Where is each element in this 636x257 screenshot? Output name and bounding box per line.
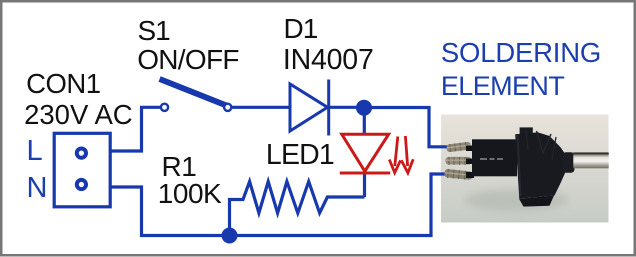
label 100K [158, 180, 221, 208]
wire: switch right terminal to diode anode [232, 106, 290, 109]
LED1 emission arrow 2 [401, 136, 413, 173]
junction A dot [356, 100, 372, 116]
wire: LED cathode down to resistor lead [363, 173, 366, 197]
soldering element: under-plug soft shadow [464, 189, 568, 211]
LED1 cathode bar [340, 172, 390, 175]
LED1 triangle [342, 134, 389, 171]
soldering element: rod top edge line [573, 152, 608, 154]
label R1 [162, 153, 197, 181]
soldering element: bell facet creases [537, 131, 552, 153]
wire: diode cathode to junction A [329, 106, 364, 109]
wire: junction A down to LED anode [363, 108, 366, 136]
label N [27, 174, 48, 203]
label ELEMENT [441, 73, 564, 100]
label L [27, 137, 43, 166]
CON1 pin N hole [77, 180, 86, 189]
label CON1 [26, 70, 100, 98]
soldering element: top tab [520, 127, 533, 136]
junction B dot [222, 228, 238, 244]
connector CON1 [54, 133, 110, 207]
soldering element: nose cylinder [563, 152, 575, 173]
soldering element: body print [480, 158, 503, 160]
soldering element: prong terminal 1 [446, 141, 471, 152]
label 230V AC [24, 101, 133, 129]
diode D1 cathode bar [327, 80, 330, 136]
wire: CON1 N pin to bottom rail to element lower prong [111, 174, 449, 236]
CON1 pin L hole [77, 149, 86, 158]
soldering element: bell foot [519, 196, 554, 207]
soldering element: prong terminal 3 [444, 169, 473, 181]
soldering element: terminal pins into body [466, 146, 474, 152]
switch S1 left contact [161, 104, 168, 111]
label ON/OFF [137, 46, 239, 74]
diode D1 IN4007 triangle [290, 84, 328, 131]
resistor R1 100K [230, 182, 365, 236]
wire: CON1 L pin to switch [111, 107, 160, 151]
wire: junction A to soldering element top prong [364, 108, 449, 147]
label S1 [138, 17, 170, 45]
label IN4007 [283, 46, 374, 75]
photo: soldering element background [441, 115, 609, 223]
switch S1 right contact [224, 104, 231, 111]
label LED1 [266, 141, 334, 170]
soldering element: bell flange [515, 132, 565, 198]
label D1 [284, 15, 318, 43]
label SOLDERING [441, 39, 601, 67]
LED1 emission arrow 1 [389, 137, 400, 173]
switch S1 lever [160, 79, 228, 106]
soldering element: metal rod [573, 153, 608, 168]
soldering element: prong terminal 2 [446, 157, 472, 165]
soldering element: plug body [472, 139, 517, 176]
